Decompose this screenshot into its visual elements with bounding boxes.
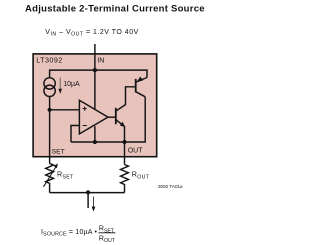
op-amp error amplifier: [79, 100, 108, 134]
wire op-amp - input feedback: [71, 126, 79, 143]
output current arrow ISOURCE: [93, 197, 95, 208]
transistor Q2 emitter arrowhead: [137, 77, 143, 83]
wire IN pin into box: [94, 44, 96, 70]
svg-text:ROUT: ROUT: [132, 170, 150, 181]
svg-text:ROUT: ROUT: [99, 235, 116, 244]
wire OUT pin out of box: [124, 142, 126, 165]
current source I1 circles: [44, 78, 55, 89]
node op-amp supply on OUT rail: [93, 140, 97, 144]
resistor RSET wiper arrow: [44, 167, 56, 187]
transistor Q1 NPN base bar: [115, 108, 117, 124]
wire op-amp top supply: [94, 70, 96, 109]
svg-text:Adjustable 2-Terminal Current: Adjustable 2-Terminal Current Source: [25, 4, 204, 15]
transistor Q1 emitter arrowhead: [120, 122, 125, 128]
resistor ROUT zigzag: [121, 165, 129, 193]
svg-text:RSET: RSET: [57, 170, 74, 181]
wire op-amp + input: [50, 109, 80, 111]
wire SET branch: current source to SET pin and RSET: [49, 97, 51, 164]
wire op-amp bottom supply: [94, 126, 96, 142]
svg-text:SET: SET: [52, 148, 65, 155]
transistor Q1 emitter: [116, 120, 125, 142]
op-amp + symbol: [83, 107, 87, 111]
transistor Q2 emitter from top rail: [137, 78, 148, 82]
svg-text:3092 TA01a: 3092 TA01a: [158, 184, 183, 189]
transistor Q2 PNP base bar: [135, 79, 137, 93]
svg-text:IN: IN: [97, 55, 104, 64]
node IN junction: [93, 68, 97, 72]
wire op-amp output to Q1 base: [108, 116, 116, 118]
svg-text:OUT: OUT: [128, 148, 144, 155]
transistor Q2 collector: [136, 92, 146, 97]
resistor RSET zigzag: [46, 163, 54, 192]
wire bottom rail between RSET and ROUT: [50, 192, 125, 194]
svg-text:ISOURCE = 10µA •: ISOURCE = 10µA •: [41, 229, 97, 238]
wire Q1 collector to Q2 base: [126, 87, 136, 90]
current source arrow 10uA: [59, 78, 61, 90]
node output terminal: [86, 190, 90, 194]
transistor Q1 collector: [116, 90, 126, 111]
LT3092 body: [33, 54, 157, 157]
svg-text:VIN – VOUT = 1.2V TO 40V: VIN – VOUT = 1.2V TO 40V: [45, 29, 138, 37]
svg-text:10µA: 10µA: [63, 81, 80, 88]
op-amp - symbol: [83, 125, 87, 127]
svg-text:LT3092: LT3092: [36, 55, 63, 64]
node SET junction (+ input tap): [48, 108, 52, 112]
wire internal bottom rail (OUT net): [71, 97, 145, 142]
wire internal top rail: [50, 70, 147, 77]
node Q1 emitter / OUT pin: [122, 140, 126, 144]
wire output terminal stub: [87, 193, 89, 208]
